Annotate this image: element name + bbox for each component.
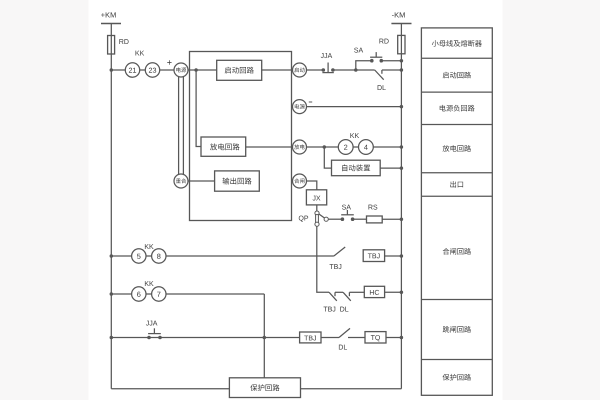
node branch to 自动装置	[323, 145, 327, 149]
terminal 放电	[293, 140, 307, 154]
block 保护回路	[229, 378, 300, 398]
block 输出回路	[215, 171, 260, 191]
wire pair 电源-重合 left	[178, 77, 180, 175]
relay coil TQ	[365, 332, 386, 343]
wire -KM to fuse	[400, 24, 402, 36]
KK contact 4	[359, 140, 374, 155]
node TQ at right rail	[400, 336, 404, 340]
legend row 保护回路	[443, 374, 471, 381]
contact JJA top	[322, 68, 326, 72]
polarity + label	[167, 60, 171, 64]
fuse RD right	[400, 35, 402, 53]
KK label top	[136, 51, 145, 56]
node SA/DL branch	[354, 68, 358, 72]
connecting strip QP	[315, 211, 319, 215]
wire JJA bottom row	[111, 337, 299, 339]
node 电源负 at right rail	[400, 105, 404, 109]
node left rail / row 6-7	[110, 292, 114, 296]
wire 放电回路 to terminal	[246, 146, 293, 148]
block 启动回路	[262, 69, 293, 71]
terminal 启动	[293, 63, 307, 77]
legend row 电源负回路	[440, 105, 475, 112]
wire 启动 to JJA	[307, 69, 324, 71]
relay JX	[306, 190, 326, 205]
node HC at right rail	[400, 291, 404, 295]
contact SA lower	[341, 217, 345, 221]
wire RS to right rail	[382, 218, 401, 220]
bus +KM bar	[101, 23, 121, 25]
node left rail / row 5-8	[110, 254, 114, 258]
block 自动装置	[332, 160, 381, 176]
node 自动装置 at right rail	[400, 166, 404, 170]
wire row 6-7	[111, 293, 264, 295]
wire branch down to 放电回路	[196, 70, 201, 147]
legend row 放电回路	[443, 145, 471, 152]
KK contact 2	[338, 140, 353, 155]
wire row 5-8	[111, 255, 334, 257]
wire JX to QP	[316, 205, 318, 211]
wire 重合 to 输出回路	[188, 180, 215, 182]
wire up to SA branch	[356, 61, 372, 70]
wire QP down to HC row	[317, 226, 329, 292]
KK contact 5	[132, 249, 146, 263]
wire bottom right	[301, 388, 402, 390]
node branch to 放电回路	[194, 68, 198, 72]
node left rail / start row	[110, 68, 114, 72]
wire 电源 to 启动回路	[188, 69, 217, 71]
contact block TBJ bottom	[300, 332, 321, 343]
terminal 重合	[174, 174, 188, 188]
wire TBJ coil to right rail	[385, 255, 402, 257]
white drawing panel	[89, 0, 503, 400]
KK label row 6-7	[145, 281, 154, 286]
KK label middle	[350, 133, 359, 138]
wire TBJ to DL	[321, 337, 339, 339]
bus -KM bar	[391, 23, 411, 25]
contact JJA bottom	[147, 336, 151, 340]
relay coil TBJ	[363, 250, 384, 262]
wire SA2 to RS	[353, 218, 367, 220]
legend row 启动回路	[443, 72, 471, 79]
legend row 合闸回路	[443, 248, 471, 255]
terminal 电源 left	[174, 63, 188, 77]
contact DL on HC row	[343, 292, 351, 301]
contact SA top	[370, 59, 374, 63]
wire TQ to right rail	[386, 337, 401, 339]
terminal 合闸	[293, 174, 307, 188]
contact DL breaker aux top	[375, 70, 384, 80]
wire QP to SA2	[328, 218, 342, 220]
node RS at right rail	[400, 217, 404, 221]
relay coil HC	[364, 286, 384, 297]
bus +KM label	[101, 12, 116, 17]
block 放电回路	[201, 137, 246, 156]
wire row 6-7 down to protection	[263, 294, 265, 378]
wire HC to right rail	[385, 291, 402, 293]
device outline box	[190, 52, 292, 221]
node TBJ at right rail	[400, 254, 404, 258]
node 放电 at right rail	[400, 145, 404, 149]
node 6-7 wire joins JJA row	[263, 336, 267, 340]
legend separators	[421, 57, 492, 59]
legend row 出口	[450, 181, 463, 188]
wire 电源负 row	[307, 106, 402, 108]
node SA at right rail	[400, 59, 404, 63]
KK contact 6	[132, 287, 146, 301]
wire bottom left	[111, 388, 229, 390]
bus -KM label	[392, 12, 405, 17]
wire branch to DL	[356, 69, 375, 71]
wire JJA to branch node	[333, 69, 356, 71]
wire SA to right rail	[381, 60, 401, 62]
wire right rail	[400, 54, 402, 389]
wire 放电 row	[307, 146, 402, 148]
wire +KM to fuse	[110, 24, 112, 36]
legend row 小母线及熔断器	[432, 40, 482, 47]
polarity - label	[309, 101, 312, 103]
KK label row 5-8	[145, 244, 154, 249]
KK contact 21	[125, 63, 139, 77]
wire 合闸 to JX	[307, 181, 317, 190]
fuse RD left	[110, 36, 112, 55]
legend table frame	[421, 28, 492, 395]
node left rail / JJA row	[110, 336, 114, 340]
wire down to 自动装置	[324, 147, 331, 168]
legend row 跳闸回路	[443, 326, 471, 333]
node DL at right rail	[400, 68, 404, 72]
wire DL to TQ	[348, 337, 365, 339]
contact TBJ on HC row	[329, 292, 337, 301]
wire 自动装置 to right rail	[380, 167, 401, 169]
KK contact 7	[152, 287, 166, 301]
terminal 电源 right	[293, 100, 307, 114]
KK contact 8	[152, 249, 166, 263]
resistor RS	[367, 216, 383, 223]
contact DL bottom	[339, 328, 350, 337]
wire pair 电源-重合 right	[182, 77, 184, 175]
contact TBJ	[334, 247, 345, 256]
wire start row	[111, 69, 174, 71]
wire left rail	[110, 54, 112, 389]
KK contact 23	[145, 63, 159, 77]
